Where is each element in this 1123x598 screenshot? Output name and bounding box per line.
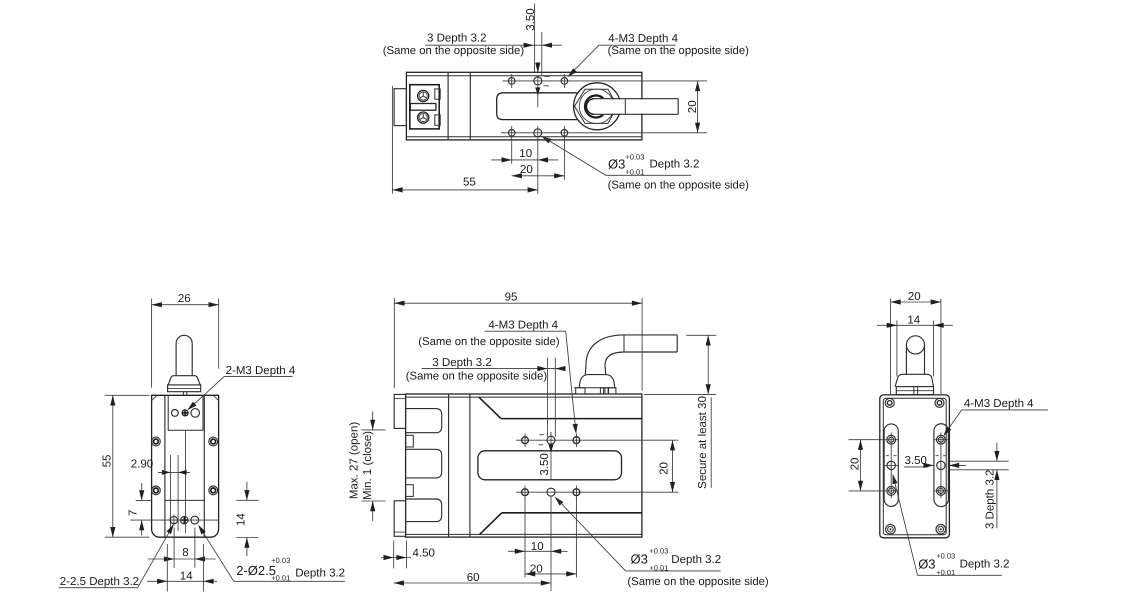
svg-text:2-Ø2.5: 2-Ø2.5 <box>236 563 276 578</box>
dim 10 <box>508 550 568 552</box>
corner screw top-right <box>935 398 944 407</box>
svg-text:26: 26 <box>178 293 191 305</box>
gland neck <box>584 365 587 375</box>
notch 2 <box>406 485 414 497</box>
dim 20 right <box>672 440 674 492</box>
dim 20 left <box>849 439 884 441</box>
right slot track <box>934 424 949 507</box>
svg-text:+0.01: +0.01 <box>649 564 668 573</box>
jaw block outline <box>410 85 439 129</box>
hole centerline bottom row <box>501 132 707 134</box>
dim max min open close <box>361 429 385 431</box>
jaw middle bar <box>410 104 436 111</box>
svg-text:Depth 3.2: Depth 3.2 <box>960 559 1010 571</box>
svg-text:14: 14 <box>236 513 248 526</box>
finger 3 <box>406 499 442 522</box>
leader Ø3 <box>893 474 898 484</box>
svg-text:55: 55 <box>102 455 114 468</box>
gland base band <box>896 387 933 395</box>
jaw step lower <box>435 115 440 125</box>
cable mask <box>594 99 678 113</box>
cable cylinder <box>905 345 907 374</box>
leader to M3 hole <box>569 45 599 75</box>
svg-text:4.50: 4.50 <box>413 548 435 560</box>
dim secure at least 30 <box>686 334 716 336</box>
svg-text:(Same on the opposite side): (Same on the opposite side) <box>383 45 525 57</box>
flange screw bottom-right <box>209 486 218 495</box>
leader Ø3 <box>555 497 564 506</box>
bottom hole centerline <box>130 519 219 521</box>
svg-text:4-M3 Depth 4: 4-M3 Depth 4 <box>964 398 1034 410</box>
dim 14 bottom <box>166 544 168 592</box>
notch 1 <box>406 435 414 447</box>
motor block screw center <box>182 410 188 416</box>
cable entry dark ring <box>585 95 603 117</box>
jaw screw 2 <box>418 112 429 123</box>
cable cap circle <box>906 336 924 354</box>
gland base tabs <box>576 388 585 394</box>
centreline dashes <box>886 455 946 457</box>
svg-text:14: 14 <box>180 571 193 583</box>
svg-text:Ø3: Ø3 <box>608 157 625 172</box>
svg-text:3.50: 3.50 <box>539 453 551 475</box>
body outline top view <box>406 72 642 140</box>
svg-text:(Same on the opposite side): (Same on the opposite side) <box>608 45 750 57</box>
ext lines down <box>524 497 526 578</box>
svg-text:Ø3: Ø3 <box>631 551 648 566</box>
svg-text:10: 10 <box>531 541 544 553</box>
dim 20 top <box>890 299 892 395</box>
hole M3 left-bottom <box>887 487 896 496</box>
dim 7 <box>136 499 152 501</box>
gland dome <box>168 376 200 385</box>
hole M3 top-right <box>573 437 580 444</box>
cable top edge <box>594 98 678 100</box>
top chamfer left <box>152 395 157 400</box>
cable straight <box>624 334 677 336</box>
hole centerline bottom row <box>516 491 678 493</box>
cable elbow inner <box>605 352 624 365</box>
jaw screw 1 <box>418 90 429 101</box>
gland dome <box>895 374 933 386</box>
arrow to slot edge <box>550 432 552 479</box>
divider 1 <box>448 394 450 537</box>
dim 20 right dim line <box>697 81 699 133</box>
hole M3 top-left <box>522 437 529 444</box>
svg-text:Ø3: Ø3 <box>918 556 935 571</box>
corner screw bottom-right <box>936 524 946 534</box>
svg-text:(Same on the opposite side): (Same on the opposite side) <box>418 336 560 348</box>
svg-text:20: 20 <box>687 100 699 113</box>
finger 2 <box>406 449 442 478</box>
bottom hole right Ø2.5 <box>191 516 199 524</box>
svg-text:(Same on the opposite side): (Same on the opposite side) <box>627 576 769 588</box>
dim 55 <box>392 189 537 191</box>
gland inner circle <box>579 89 614 124</box>
svg-text:(Same on the opposite side): (Same on the opposite side) <box>406 370 548 382</box>
ext line 55 left <box>391 86 393 194</box>
flange screw bottom-left <box>152 486 161 495</box>
label 2-Ø2.5 tolerance <box>199 526 234 581</box>
svg-text:20: 20 <box>908 291 921 303</box>
left coupler tab <box>394 89 406 126</box>
ext line hole center down <box>537 140 539 194</box>
body outline front view <box>152 395 219 537</box>
svg-text:+0.03: +0.03 <box>271 556 290 565</box>
leader Ø3 <box>541 136 551 143</box>
hole Ø3 bottom-center <box>547 488 555 496</box>
hole M3 left-top <box>887 435 896 444</box>
hole Ø3 top-center <box>534 77 542 85</box>
svg-text:4-M3 Depth 4: 4-M3 Depth 4 <box>488 320 558 332</box>
cable bottom edge <box>594 113 678 115</box>
body outline side view <box>406 394 642 537</box>
center line <box>185 430 187 533</box>
dim 4.50 <box>393 541 395 569</box>
svg-text:3 Depth 3.2: 3 Depth 3.2 <box>432 357 491 369</box>
hole M3 bottom-right <box>561 130 568 137</box>
dim 60 <box>394 582 551 584</box>
dim 14 top <box>896 321 898 377</box>
svg-text:55: 55 <box>463 177 476 189</box>
ext line hole right down <box>563 140 565 180</box>
svg-text:Min. 1 (close): Min. 1 (close) <box>362 431 374 500</box>
svg-text:10: 10 <box>519 148 532 160</box>
flange inner line left <box>164 395 166 537</box>
svg-text:60: 60 <box>467 572 480 584</box>
hole Ø3 top-center <box>547 436 555 444</box>
bottom finger tab <box>394 501 405 537</box>
svg-text:+0.01: +0.01 <box>271 573 290 582</box>
dim 10 <box>491 159 558 161</box>
ext line hole left down <box>511 140 513 164</box>
arrow down to slot edge <box>537 87 539 107</box>
dim 20 <box>525 573 576 575</box>
cable elbow outer <box>586 335 624 365</box>
svg-text:Max. 27 (open): Max. 27 (open) <box>348 422 360 500</box>
svg-text:14: 14 <box>907 315 920 327</box>
recess bottom edge <box>502 512 642 514</box>
inner guide line 1 <box>169 455 171 531</box>
slot window <box>497 93 578 120</box>
flange inner line right <box>203 395 205 537</box>
svg-text:2.90: 2.90 <box>131 458 153 470</box>
body outline end view <box>880 395 950 538</box>
svg-text:+0.01: +0.01 <box>625 168 644 177</box>
svg-text:2-M3 Depth 4: 2-M3 Depth 4 <box>226 365 296 377</box>
flange screw top-right <box>209 437 218 446</box>
jaw step upper <box>435 89 440 99</box>
bottom step line <box>165 499 204 501</box>
inner bottom line <box>406 533 642 535</box>
svg-text:Depth 3.2: Depth 3.2 <box>650 159 700 171</box>
section divider line 2 <box>469 72 471 140</box>
hole M3 top-right <box>561 78 568 85</box>
svg-text:20: 20 <box>530 563 543 575</box>
slot window <box>478 451 622 480</box>
svg-text:8: 8 <box>182 547 188 559</box>
dim 3.50 ext line B <box>541 32 543 76</box>
bottom hole center screw <box>181 516 188 523</box>
svg-text:20: 20 <box>659 462 671 475</box>
recess top edge <box>501 418 642 420</box>
svg-text:3 Depth 3.2: 3 Depth 3.2 <box>427 33 486 45</box>
hole M3 bottom-left <box>508 130 515 137</box>
svg-text:+0.03: +0.03 <box>936 551 955 560</box>
flange screw top-left <box>152 437 161 446</box>
cable rounded end <box>587 99 595 115</box>
motor block hole left <box>172 410 179 417</box>
svg-text:95: 95 <box>505 291 518 303</box>
track centerlines <box>890 433 892 499</box>
motor block <box>168 395 203 430</box>
finger 1 <box>406 409 442 433</box>
hole M3 bottom-right <box>573 489 580 496</box>
svg-text:Depth 3.2: Depth 3.2 <box>671 554 721 566</box>
body inner bottom line <box>406 136 642 138</box>
svg-text:Secure at least 30: Secure at least 30 <box>697 396 709 489</box>
svg-text:(Same on the opposite side): (Same on the opposite side) <box>608 179 750 191</box>
cable end cap <box>677 99 679 115</box>
top finger tab <box>394 394 405 428</box>
gland nut outer circle <box>574 83 621 130</box>
hole Ø3 bottom-center <box>534 129 542 137</box>
centreline dashes <box>539 435 544 445</box>
cable divider <box>624 99 626 115</box>
hole Ø3 right-middle <box>937 461 945 469</box>
body inner top line <box>406 75 642 77</box>
dim 3.50 ext line A <box>534 4 536 73</box>
centreline dash marks <box>544 76 550 85</box>
motor block hole right <box>191 409 200 418</box>
corner screw top-left <box>885 398 894 407</box>
inner top line <box>406 396 642 398</box>
hole Ø3 left-middle <box>887 461 895 469</box>
bottom hole left 2.5 <box>170 516 177 523</box>
svg-text:7: 7 <box>127 510 139 516</box>
svg-text:Depth 3.2: Depth 3.2 <box>295 568 345 580</box>
gland neck ticks <box>182 392 184 396</box>
svg-text:20: 20 <box>520 164 533 176</box>
svg-text:3 Depth 3.2: 3 Depth 3.2 <box>984 470 996 529</box>
svg-text:+0.01: +0.01 <box>936 568 955 577</box>
svg-text:+0.03: +0.03 <box>649 546 668 555</box>
hole M3 right-bottom <box>937 487 946 496</box>
gland dome <box>579 375 614 388</box>
center arrow down to body <box>537 62 539 72</box>
svg-text:+0.03: +0.03 <box>625 152 644 161</box>
hole M3 right-top <box>937 435 946 444</box>
dim 95 <box>393 298 395 388</box>
svg-text:4-M3 Depth 4: 4-M3 Depth 4 <box>608 33 678 45</box>
gland band <box>168 385 201 392</box>
cable cap <box>176 335 192 343</box>
hole M3 bottom-left <box>522 489 529 496</box>
section divider line 1 <box>447 72 449 140</box>
dim 20 bottom <box>512 175 565 177</box>
body inner outline <box>883 398 946 535</box>
gland base line <box>574 387 616 389</box>
dim 55 <box>105 394 150 396</box>
gland nut hexagon <box>575 89 618 123</box>
top chamfer right <box>213 395 218 400</box>
dim 14 right side <box>236 499 258 501</box>
svg-text:20: 20 <box>849 458 861 471</box>
dim 3 ext lines <box>547 358 549 437</box>
left slot track <box>884 424 898 506</box>
corner screw bottom-left <box>886 524 896 534</box>
hole centerline top row <box>516 439 678 441</box>
hole M3 top-left <box>508 78 515 85</box>
svg-text:2-2.5 Depth 3.2: 2-2.5 Depth 3.2 <box>60 576 139 588</box>
dim 3 depth 3.2 <box>949 460 1009 462</box>
svg-text:3.50: 3.50 <box>525 8 537 30</box>
cable sides <box>175 343 177 375</box>
hole centerline top row <box>503 80 707 82</box>
inner guide line 2 <box>177 455 179 531</box>
dim 8 <box>173 528 175 568</box>
dim 26 <box>151 299 153 388</box>
divider 2 <box>469 394 471 537</box>
